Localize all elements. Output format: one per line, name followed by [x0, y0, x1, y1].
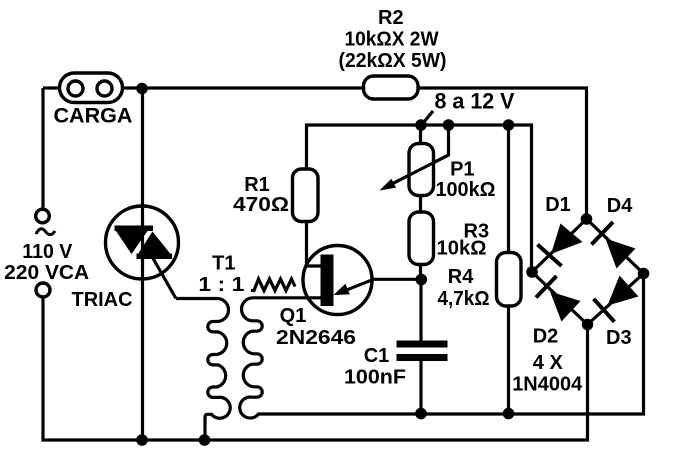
svg-text:D2: D2: [533, 326, 559, 348]
svg-text:4 X: 4 X: [533, 352, 564, 374]
svg-text:100nF: 100nF: [344, 366, 406, 388]
svg-text:R1: R1: [244, 174, 270, 196]
svg-text:2N2646: 2N2646: [276, 327, 356, 349]
svg-text:470Ω: 470Ω: [233, 194, 289, 216]
svg-text:(22kΩX 5W): (22kΩX 5W): [339, 50, 447, 72]
svg-text:10kΩ: 10kΩ: [437, 238, 487, 260]
svg-text:D4: D4: [607, 195, 633, 217]
svg-text:8 a 12 V: 8 a 12 V: [435, 89, 515, 114]
svg-text:100kΩ: 100kΩ: [436, 179, 496, 201]
svg-text:P1: P1: [450, 158, 474, 180]
svg-text:220 VCA: 220 VCA: [4, 262, 89, 284]
svg-text:110 V: 110 V: [22, 241, 73, 263]
svg-text:1N4004: 1N4004: [512, 373, 583, 395]
svg-text:R2: R2: [378, 7, 404, 29]
svg-text:Q1: Q1: [280, 305, 307, 327]
svg-text:TRIAC: TRIAC: [72, 289, 133, 311]
svg-text:CARGA: CARGA: [54, 105, 133, 128]
svg-text:T1: T1: [212, 253, 235, 275]
svg-text:R4: R4: [448, 266, 474, 288]
svg-text:C1: C1: [364, 345, 390, 367]
svg-text:10kΩX 2W: 10kΩX 2W: [345, 29, 439, 51]
svg-text:1 : 1: 1 : 1: [198, 274, 244, 296]
svg-text:D1: D1: [545, 194, 571, 216]
svg-text:D3: D3: [606, 327, 632, 349]
svg-text:4,7kΩ: 4,7kΩ: [438, 288, 490, 310]
